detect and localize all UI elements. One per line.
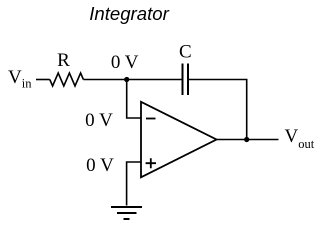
ground (111, 207, 142, 219)
svg-text:Integrator: Integrator (89, 3, 169, 24)
svg-text:R: R (57, 50, 70, 71)
wire output (217, 139, 279, 141)
wire noninverting input to ground (127, 162, 141, 206)
junction dot output node (244, 137, 249, 142)
capacitor C (183, 64, 189, 96)
svg-text:0 V: 0 V (111, 52, 139, 73)
wire capacitor to feedback corner (189, 80, 247, 140)
op-amp inverting pin minus (146, 118, 156, 120)
wire Vin to R (36, 79, 50, 81)
wire R to capacitor (83, 79, 181, 81)
svg-text:0 V: 0 V (85, 110, 113, 131)
resistor R (50, 73, 84, 86)
svg-text:C: C (179, 42, 192, 63)
svg-text:0 V: 0 V (86, 155, 114, 176)
op-amp noninverting pin plus (146, 158, 156, 168)
op-amp U1 (141, 102, 217, 178)
wire inverting input (127, 80, 141, 119)
node 0V junction dot (124, 77, 129, 82)
